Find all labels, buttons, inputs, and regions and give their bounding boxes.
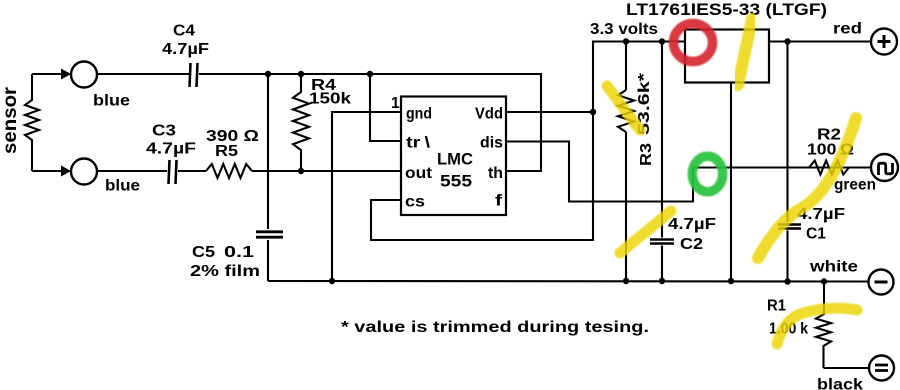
wire R1 to black terminal <box>824 367 870 369</box>
svg-text:3.3 volts: 3.3 volts <box>590 21 658 38</box>
svg-text:f: f <box>495 193 503 210</box>
terminal plus (red) <box>871 29 897 55</box>
svg-text:green: green <box>834 177 876 194</box>
node junction rail C2 <box>659 278 665 284</box>
annotation green ring <box>692 156 722 192</box>
arrowhead bottom <box>61 166 71 177</box>
node junction top at x301 <box>298 71 304 77</box>
ground rail <box>268 280 868 283</box>
node junction C1 top <box>784 38 790 44</box>
resistor R3 zigzag <box>618 90 634 132</box>
terminal double-bar (black) <box>869 356 894 381</box>
svg-text:R1: R1 <box>767 298 786 315</box>
wire sensor top to plug <box>32 73 66 75</box>
node junction rail R1 <box>821 278 827 284</box>
wire gnd stub and ground drop <box>332 112 401 281</box>
wire C1 bottom to rail <box>786 231 788 282</box>
wire sensor bottom to plug <box>32 170 66 172</box>
highlighter stroke over regulator <box>738 19 752 85</box>
svg-text:150k: 150k <box>309 91 351 108</box>
svg-text:LT1761IES5-33 (LTGF): LT1761IES5-33 (LTGF) <box>626 1 827 19</box>
capacitor C2 column top <box>661 42 663 238</box>
wire C5 to ground rail <box>267 240 269 281</box>
svg-text:C4: C4 <box>173 23 195 40</box>
svg-text:black: black <box>817 377 863 390</box>
svg-text:blue: blue <box>93 93 130 110</box>
wire R3 bottom to ground rail <box>625 132 627 281</box>
svg-text:red: red <box>833 21 862 38</box>
svg-text:gnd: gnd <box>406 106 432 123</box>
svg-text:blue: blue <box>105 178 140 195</box>
resistor R3 column top <box>625 42 627 91</box>
node junction rail C1 <box>784 278 790 284</box>
svg-text:C5: C5 <box>192 244 215 261</box>
svg-text:4.7µF: 4.7µF <box>146 141 196 158</box>
wire 3.3V rail to regulator <box>593 40 685 42</box>
wire regulator output to red terminal <box>769 40 871 42</box>
svg-text:555: 555 <box>440 173 472 191</box>
ic U1 box LMC555 <box>401 97 506 216</box>
svg-text:2% film: 2% film <box>190 263 260 280</box>
wire regulator ground pin to rail <box>730 82 732 281</box>
capacitor C3 <box>169 160 177 184</box>
wire cs loop <box>371 42 685 241</box>
highlighter curve near R2 and C1 <box>758 118 856 258</box>
svg-text:cs: cs <box>405 194 425 211</box>
svg-text:LMC: LMC <box>437 151 473 169</box>
terminal minus (white) <box>869 270 894 295</box>
resistor R1 <box>816 282 831 369</box>
resistor R5 zigzag <box>206 164 252 178</box>
wire Vdd stub <box>506 111 593 113</box>
capacitor C2 plates <box>650 240 674 244</box>
svg-text:tr \: tr \ <box>406 135 431 152</box>
node junction Vdd at x593 <box>590 109 596 115</box>
plug circle bottom (blue) <box>71 159 97 185</box>
sensor element zigzag <box>25 74 39 171</box>
svg-text:sensor: sensor <box>0 86 21 154</box>
svg-text:C1: C1 <box>806 226 826 243</box>
regulator U2 box <box>685 30 769 83</box>
svg-text:1: 1 <box>391 95 400 112</box>
capacitor C1 column <box>786 42 788 223</box>
svg-text:R5: R5 <box>215 143 238 160</box>
svg-text:4.7µF: 4.7µF <box>668 216 716 233</box>
svg-text:out: out <box>405 165 432 182</box>
resistor R2 zigzag <box>809 161 849 175</box>
highlighter arc over R1 <box>777 308 857 344</box>
wire C2 bottom to rail <box>661 246 663 282</box>
highlighter stroke over R3 <box>607 86 640 130</box>
annotation red ring <box>674 24 713 62</box>
node junction rail R3 <box>623 278 629 284</box>
svg-text:R3: R3 <box>638 143 655 166</box>
node junction bottom row at x301 <box>298 168 304 174</box>
node junction top at x370 <box>367 71 373 77</box>
wire C4 column down to C5 <box>267 74 269 229</box>
highlighter stroke over C2 <box>620 211 671 253</box>
svg-text:* value is trimmed during tesi: * value is trimmed during tesing. <box>341 319 649 336</box>
node junction rail regulator gnd <box>728 278 734 284</box>
resistor R4 <box>293 74 309 171</box>
node junction top at x268 <box>265 71 271 77</box>
wire dis net: down, right, up to R2 row <box>506 142 871 202</box>
node junction rail gnd x332 <box>329 278 335 284</box>
node junction R3 top <box>623 38 629 44</box>
svg-text:C3: C3 <box>152 123 176 140</box>
svg-text:C2: C2 <box>680 236 703 253</box>
capacitor C4 <box>190 63 198 87</box>
wire tr vertical <box>370 74 401 141</box>
svg-text:dis: dis <box>480 135 503 152</box>
svg-text:0.1: 0.1 <box>224 244 255 261</box>
plug circle top (blue) <box>71 62 97 88</box>
node junction C2 top <box>659 38 665 44</box>
svg-text:th: th <box>488 165 503 182</box>
svg-text:white: white <box>809 259 859 276</box>
terminal square-wave (green) <box>871 154 898 181</box>
capacitor C1 plates <box>778 225 801 229</box>
svg-text:4.7µF: 4.7µF <box>162 41 209 58</box>
arrowhead top <box>61 69 71 80</box>
wire top rail (tr/th net) <box>97 74 541 171</box>
capacitor C5 plates <box>256 232 283 237</box>
wire bottom row (out net) <box>97 170 401 172</box>
svg-text:Vdd: Vdd <box>475 106 503 123</box>
